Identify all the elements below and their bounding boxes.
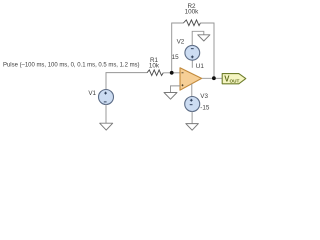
svg-text:V1: V1 [88,90,96,97]
ground at V2 [198,35,210,41]
source V2 [185,45,200,60]
V1 plus mark [104,92,107,95]
wire V3 bottom to ground [191,112,193,124]
svg-text:15: 15 [172,54,180,61]
wire V1 bottom to ground [105,104,107,123]
wire V2 top to ground [192,31,204,45]
source V1 [99,90,114,105]
wire V1 top to R1 left [106,73,147,90]
svg-text:-15: -15 [200,105,210,112]
V2 plus mark [191,56,194,59]
V2 minus mark [191,48,194,50]
svg-text:U1: U1 [196,63,205,70]
node junction at inverting input [170,71,174,75]
op-amp non-inverting input mark [182,84,184,86]
VOUT output flag [222,74,246,84]
wire op-amp V- pin to V3 [191,84,193,97]
ground at V3 [186,124,199,131]
wire non-inverting input to ground [171,86,181,93]
svg-text:10k: 10k [149,62,160,69]
resistor R2 [183,20,200,26]
wire feedback right vertical to output node [200,23,214,78]
source V3 [185,97,200,112]
V3 minus mark [190,104,193,106]
wire R1 to op-amp inverting input [163,72,179,74]
svg-text:V3: V3 [200,93,208,100]
svg-text:100k: 100k [185,9,200,16]
V1 minus mark [104,101,107,103]
ground at V1 [100,123,113,130]
resistor R1 [147,70,163,76]
wire feedback left vertical [172,23,184,73]
ground at non-inverting input [164,93,177,100]
wire op-amp output to VOUT flag [202,77,223,79]
node junction at output [212,76,216,80]
op-amp inverting input mark [182,72,184,74]
op-amp U1 [180,68,202,90]
svg-text:Pulse (–100 ms, 100 ms, 0, 0.1: Pulse (–100 ms, 100 ms, 0, 0.1 ms, 0.5 m… [3,61,140,68]
V3 plus mark [190,99,193,102]
svg-text:V2: V2 [177,38,185,45]
wire op-amp V+ pin to V2 [191,60,193,68]
